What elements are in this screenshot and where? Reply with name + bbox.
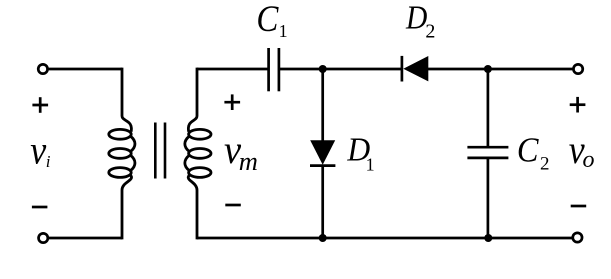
capacitor C1 (269, 48, 279, 91)
wire C2 to bottom (487, 158, 490, 238)
terminal output top (573, 64, 582, 73)
transformer secondary winding L2 (185, 68, 211, 240)
svg-text:o: o (583, 147, 595, 173)
wire D1 to bottom (321, 166, 324, 238)
node D (bottom junction right) (484, 234, 492, 242)
terminal input bottom (39, 233, 48, 242)
svg-text:C: C (256, 0, 279, 39)
wire bottom-left horizontal (49, 237, 122, 240)
svg-text:1: 1 (279, 21, 288, 41)
terminal output bottom (573, 233, 582, 242)
node C (bottom junction left) (319, 234, 327, 242)
wire top-left horizontal (48, 68, 122, 71)
label + (vi) (32, 97, 48, 113)
label + (vo) (570, 97, 586, 113)
node B (top junction right) (484, 65, 492, 73)
wire C2 branch vertical top (487, 69, 490, 147)
svg-text:v: v (30, 127, 46, 172)
wire secondary top to C1 (197, 68, 268, 71)
svg-text:C: C (517, 130, 539, 169)
svg-text:2: 2 (425, 21, 435, 43)
transformer primary winding L1 (109, 68, 135, 240)
wire D2 to output top (428, 68, 573, 71)
diode D2 (402, 56, 428, 82)
diode D1 (310, 140, 335, 165)
wire D1 branch vertical (321, 69, 324, 141)
capacitor C2 (467, 147, 508, 158)
node A (top junction left) (319, 65, 327, 73)
terminal input top (38, 64, 47, 73)
label minus (vo) (571, 205, 587, 208)
wire bottom horizontal (197, 237, 572, 240)
svg-text:1: 1 (366, 155, 375, 175)
svg-text:2: 2 (540, 154, 550, 175)
svg-text:D: D (405, 0, 428, 37)
svg-text:i: i (46, 152, 51, 171)
label minus (vm) (225, 204, 241, 207)
svg-text:m: m (239, 146, 258, 176)
label minus (vi) (32, 206, 48, 209)
transformer core (154, 123, 157, 179)
label + (vm) (224, 94, 240, 110)
wire C1 to D2 (280, 68, 403, 71)
